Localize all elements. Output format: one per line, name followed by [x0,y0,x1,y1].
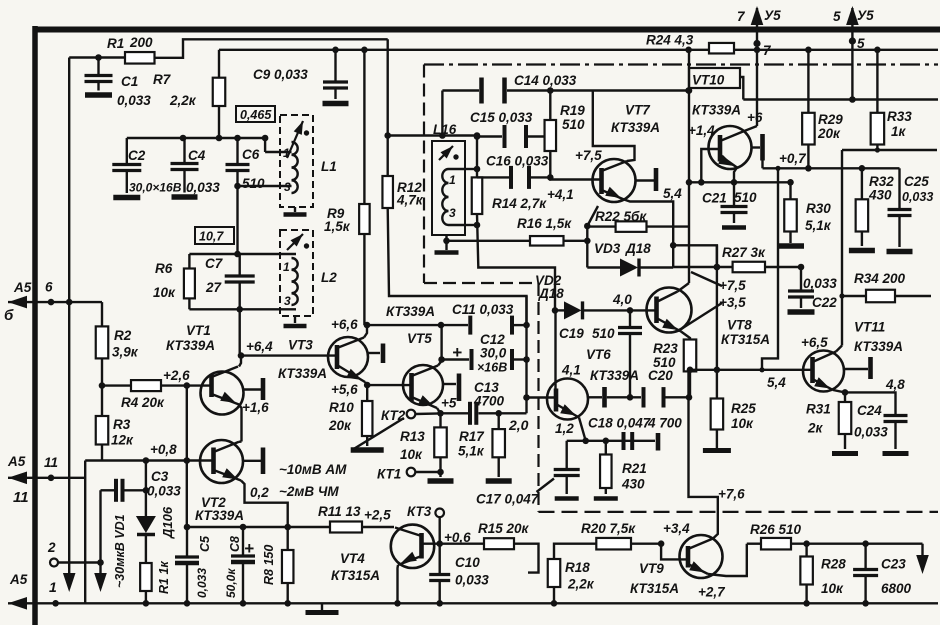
svg-text:0,033: 0,033 [902,190,933,204]
svg-text:VT1: VT1 [186,323,211,338]
svg-text:A5: A5 [7,454,26,469]
svg-text:+: + [452,343,462,362]
svg-text:+7,6: +7,6 [718,487,745,502]
svg-text:+6: +6 [747,110,763,125]
svg-text:C20: C20 [648,368,673,383]
svg-text:510: 510 [653,355,676,370]
svg-text:6: 6 [45,280,53,295]
svg-text:C21: C21 [702,191,727,206]
svg-text:КТ315А: КТ315А [721,332,770,347]
svg-text:R28: R28 [821,557,846,572]
svg-text:C18 0,047: C18 0,047 [588,416,652,431]
svg-text:б: б [4,307,14,324]
svg-text:C6: C6 [242,147,260,162]
svg-text:КТ339А: КТ339А [692,103,741,118]
svg-text:L2: L2 [321,270,337,285]
svg-text:R1 1к: R1 1к [157,561,171,594]
svg-text:R27 3к: R27 3к [722,245,766,260]
svg-text:R30: R30 [806,201,831,216]
svg-text:C17 0,047: C17 0,047 [476,492,540,507]
svg-text:1: 1 [49,579,57,595]
svg-text:+6,4: +6,4 [246,339,273,354]
svg-text:C16 0,033: C16 0,033 [486,154,549,169]
svg-text:510: 510 [592,326,615,341]
svg-text:КТ339А: КТ339А [195,508,244,523]
svg-text:C8: C8 [228,536,242,552]
svg-text:R4 20к: R4 20к [121,395,165,410]
svg-text:1к: 1к [891,124,907,139]
svg-text:0,465: 0,465 [240,108,272,122]
svg-text:У5: У5 [857,8,874,23]
svg-text:20к: 20к [328,418,352,433]
svg-text:R17: R17 [459,429,485,444]
svg-text:C14 0,033: C14 0,033 [514,73,577,88]
svg-text:R1: R1 [107,36,124,51]
svg-text:КТ339А: КТ339А [611,120,660,135]
svg-text:R7: R7 [153,72,172,87]
svg-text:R10: R10 [329,400,354,415]
svg-text:R8 150: R8 150 [262,545,276,585]
svg-text:1: 1 [283,146,290,160]
svg-text:R15 20к: R15 20к [478,521,530,536]
svg-text:3,9к: 3,9к [112,345,139,360]
svg-text:R24 4,3: R24 4,3 [646,33,694,48]
svg-text:0,033: 0,033 [186,180,220,195]
svg-text:5: 5 [833,9,841,24]
svg-text:2,2к: 2,2к [567,577,595,592]
svg-text:C2: C2 [128,148,146,163]
svg-text:2к: 2к [807,421,824,436]
svg-text:2,0: 2,0 [508,417,529,433]
svg-text:КТ339А: КТ339А [590,368,639,383]
svg-text:5: 5 [857,36,865,51]
svg-text:C25: C25 [904,174,929,189]
svg-text:10к: 10к [731,416,754,431]
svg-text:Д18: Д18 [538,286,564,301]
svg-text:+0,6: +0,6 [444,530,471,545]
svg-text:+3,4: +3,4 [663,521,690,536]
svg-text:+5,6: +5,6 [331,382,358,397]
svg-text:0,033: 0,033 [854,425,888,440]
svg-text:R31: R31 [806,402,831,417]
svg-text:+1,4: +1,4 [688,123,715,138]
svg-text:10к: 10к [400,447,423,462]
svg-text:R23: R23 [653,341,678,356]
svg-text:VT11: VT11 [854,320,885,335]
svg-text:~10мВ АМ: ~10мВ АМ [279,462,347,477]
svg-text:R33: R33 [887,109,912,124]
svg-text:C7: C7 [205,256,224,271]
svg-text:R2: R2 [114,328,132,343]
svg-text:6800: 6800 [881,581,912,596]
svg-text:R25: R25 [731,401,756,416]
svg-text:+3,5: +3,5 [719,295,746,310]
svg-text:+: + [244,539,254,558]
svg-text:КТ2: КТ2 [381,408,406,423]
svg-text:C5: C5 [198,535,212,552]
svg-text:R34 200: R34 200 [854,271,906,286]
svg-text:4,1: 4,1 [561,363,581,378]
svg-text:+0,7: +0,7 [779,151,807,166]
svg-text:VT8: VT8 [727,318,752,333]
svg-text:R19: R19 [560,103,585,118]
svg-text:VD3: VD3 [594,241,621,256]
svg-text:0,033: 0,033 [195,568,209,598]
svg-text:C22: C22 [812,295,837,310]
svg-text:R6: R6 [155,261,173,276]
svg-text:R13: R13 [400,429,425,444]
svg-text:Д106: Д106 [160,506,175,539]
svg-text:VT9: VT9 [639,561,664,576]
svg-text:3: 3 [449,206,456,220]
svg-text:0,033: 0,033 [803,276,837,291]
svg-text:VT5: VT5 [407,331,432,346]
svg-text:30,0×16В: 30,0×16В [129,181,182,195]
svg-text:11: 11 [44,455,58,470]
svg-text:L16: L16 [433,122,457,137]
svg-text:1,5к: 1,5к [324,219,351,234]
svg-text:+4,1: +4,1 [547,187,574,202]
svg-text:50,0к: 50,0к [224,568,238,598]
svg-text:3: 3 [284,294,291,308]
svg-text:0,2: 0,2 [250,485,269,500]
svg-text:+5: +5 [441,396,457,411]
svg-text:~30мкВ VD1: ~30мкВ VD1 [113,514,127,588]
svg-text:430: 430 [621,477,645,492]
svg-text:КТ315А: КТ315А [630,581,679,596]
svg-text:3: 3 [284,180,291,194]
svg-text:C11 0,033: C11 0,033 [452,302,514,317]
svg-text:A5: A5 [9,572,28,587]
svg-text:10к: 10к [153,285,176,300]
svg-text:КТ1: КТ1 [377,467,401,482]
svg-text:30,0: 30,0 [480,346,507,361]
svg-text:C24: C24 [857,403,882,418]
svg-text:R3: R3 [113,417,131,432]
svg-text:VT6: VT6 [586,347,611,362]
svg-text:+6,5: +6,5 [801,335,828,350]
svg-text:R16 1,5к: R16 1,5к [517,216,572,231]
svg-text:R18: R18 [565,560,590,575]
svg-text:КТ3: КТ3 [407,504,432,519]
svg-text:C9 0,033: C9 0,033 [253,67,308,82]
svg-text:4,0: 4,0 [612,292,632,307]
svg-text:У5: У5 [764,8,781,23]
svg-text:20к: 20к [817,126,841,141]
svg-text:+0,8: +0,8 [150,442,177,457]
svg-text:2: 2 [47,540,56,555]
svg-text:КТ339А: КТ339А [166,338,215,353]
svg-text:0,033: 0,033 [455,573,489,588]
svg-text:L1: L1 [321,159,337,174]
svg-text:VT10: VT10 [692,73,725,88]
svg-text:4700: 4700 [473,394,505,409]
svg-text:510: 510 [242,176,265,191]
svg-text:5,4: 5,4 [663,186,682,201]
svg-text:1: 1 [283,260,290,274]
svg-text:VT3: VT3 [288,338,313,353]
svg-text:+2,5: +2,5 [364,508,391,523]
svg-text:10к: 10к [821,581,844,596]
svg-text:+7,5: +7,5 [575,148,602,163]
svg-text:4,7к: 4,7к [396,193,424,208]
svg-text:C4: C4 [188,148,206,163]
svg-text:КТ339А: КТ339А [386,304,435,319]
svg-text:0,033: 0,033 [147,484,181,499]
svg-text:R29: R29 [818,112,843,127]
svg-text:5,1к: 5,1к [805,218,832,233]
svg-text:VT7: VT7 [625,103,651,118]
svg-text:+1,6: +1,6 [242,400,269,415]
svg-text:C23: C23 [881,557,906,572]
svg-text:0,033: 0,033 [117,93,151,108]
svg-text:C1: C1 [121,74,138,89]
svg-text:VT4: VT4 [340,551,365,566]
svg-text:5,4: 5,4 [767,375,786,390]
svg-text:200: 200 [129,35,153,50]
svg-text:КТ339А: КТ339А [278,366,327,381]
svg-text:4 700: 4 700 [647,416,682,431]
svg-text:+2,6: +2,6 [163,368,190,383]
svg-text:+2,7: +2,7 [698,585,726,600]
svg-text:C3: C3 [151,469,169,484]
svg-text:27: 27 [205,280,223,295]
svg-text:+6,6: +6,6 [331,317,358,332]
svg-text:1: 1 [449,173,456,187]
svg-text:11: 11 [13,489,29,506]
svg-text:2,2к: 2,2к [169,93,197,108]
svg-text:КТ339А: КТ339А [854,339,903,354]
svg-text:Д18: Д18 [625,241,651,256]
svg-text:C15 0,033: C15 0,033 [470,110,533,125]
svg-text:C10: C10 [455,555,480,570]
svg-text:R14 2,7к: R14 2,7к [492,196,547,211]
svg-text:R11 13: R11 13 [318,504,361,519]
svg-text:5,1к: 5,1к [458,444,485,459]
svg-text:A5: A5 [13,280,32,295]
svg-text:R26 510: R26 510 [750,522,802,537]
svg-text:430: 430 [868,188,892,203]
svg-text:КТ315А: КТ315А [331,568,380,583]
svg-text:C19: C19 [559,326,584,341]
svg-text:1,2: 1,2 [555,421,574,436]
svg-text:510: 510 [562,117,585,132]
svg-text:510: 510 [734,190,757,205]
svg-text:10,7: 10,7 [199,230,224,244]
svg-text:R21: R21 [622,461,647,476]
svg-text:12к: 12к [111,433,134,448]
svg-text:+7,5: +7,5 [719,278,746,293]
svg-text:4,8: 4,8 [885,377,905,392]
svg-text:R22 5бк: R22 5бк [595,209,647,224]
svg-text:×16В: ×16В [477,361,507,375]
svg-text:R20 7,5к: R20 7,5к [581,521,636,536]
svg-text:~2мВ ЧМ: ~2мВ ЧМ [279,484,339,499]
